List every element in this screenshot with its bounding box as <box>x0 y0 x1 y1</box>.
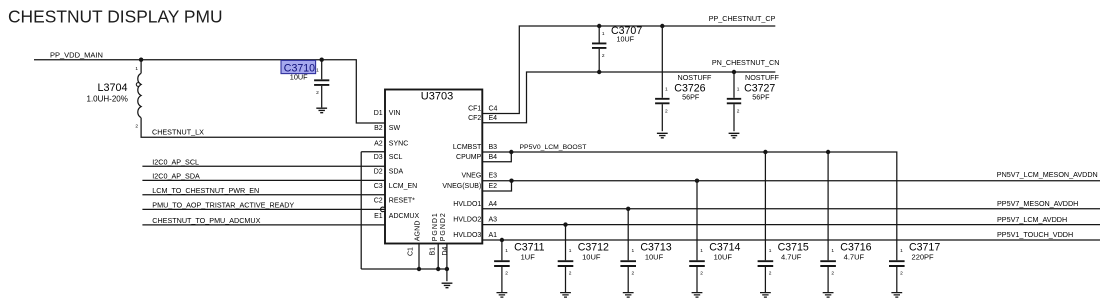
svg-text:1: 1 <box>135 66 138 72</box>
svg-text:1: 1 <box>769 248 772 254</box>
junction node B3/B4 <box>509 150 513 154</box>
svg-text:PP_CHESTNUT_CP: PP_CHESTNUT_CP <box>709 14 776 23</box>
svg-text:2: 2 <box>316 90 319 96</box>
svg-text:2: 2 <box>900 271 903 277</box>
capacitor C3710 <box>314 60 329 108</box>
wire PN5V7_LCM_MESON_AVDDN from pin E3 <box>482 180 1100 182</box>
wire PP5V7_MESON_AVDDH from pin A4 <box>482 208 1100 210</box>
wire PP5V7_LCM_AVDDH from pin A3 <box>482 224 1100 226</box>
svg-text:PGND2: PGND2 <box>440 212 447 241</box>
svg-text:2: 2 <box>569 271 572 277</box>
ground under C3712 <box>560 293 571 298</box>
svg-text:D2: D2 <box>374 168 383 175</box>
svg-text:PP5V7_LCM_AVDDH: PP5V7_LCM_AVDDH <box>997 215 1067 224</box>
svg-text:1: 1 <box>569 248 572 254</box>
junction node C3713 pin 1 <box>626 207 630 211</box>
svg-text:CF2: CF2 <box>468 115 481 122</box>
svg-text:2: 2 <box>505 271 508 277</box>
svg-text:2: 2 <box>632 271 635 277</box>
svg-text:PP5V7_MESON_AVDDH: PP5V7_MESON_AVDDH <box>997 199 1078 208</box>
wire PP5V1_TOUCH_VDDH from pin A1 <box>482 239 1100 241</box>
svg-text:LCM_TO_CHESTNUT_PWR_EN: LCM_TO_CHESTNUT_PWR_EN <box>152 186 259 195</box>
svg-text:1: 1 <box>505 248 508 254</box>
ground under C3711 <box>497 293 508 298</box>
svg-text:1: 1 <box>831 248 834 254</box>
svg-text:NOSTUFF: NOSTUFF <box>745 73 780 82</box>
svg-text:1: 1 <box>632 248 635 254</box>
capacitor C3727 (NOSTUFF) <box>727 72 741 131</box>
junction node at C3710 pin 1 <box>320 58 324 62</box>
junction node C3715 pin 1 <box>763 150 767 154</box>
junction node AGND/rail <box>417 267 421 271</box>
svg-text:1: 1 <box>316 67 319 73</box>
svg-text:2: 2 <box>602 53 605 59</box>
L3704 polarity dot marker <box>136 83 140 87</box>
capacitor C3726 (NOSTUFF) <box>655 26 669 131</box>
svg-text:1: 1 <box>602 31 605 37</box>
svg-text:C3712: C3712 <box>578 241 609 253</box>
svg-text:A2: A2 <box>374 141 383 148</box>
svg-text:10UF: 10UF <box>290 72 308 81</box>
svg-text:PP5V0_LCM_BOOST: PP5V0_LCM_BOOST <box>520 144 587 151</box>
svg-text:220PF: 220PF <box>912 253 935 262</box>
svg-text:A1: A1 <box>489 232 498 239</box>
svg-text:PN5V7_LCM_MESON_AVDDN: PN5V7_LCM_MESON_AVDDN <box>997 170 1098 179</box>
svg-text:CHESTNUT_LX: CHESTNUT_LX <box>152 128 204 137</box>
svg-text:U3703: U3703 <box>421 91 453 103</box>
wire I2C0_AP_SCL <box>142 165 385 167</box>
capacitor C3717 <box>889 261 905 292</box>
svg-text:CF1: CF1 <box>468 105 481 112</box>
junction node C3711 pin 1 <box>500 238 504 242</box>
capacitor C3713 <box>620 209 636 292</box>
svg-text:C3711: C3711 <box>514 241 545 253</box>
svg-text:1: 1 <box>737 87 740 93</box>
wire PMU_TO_AOP_TRISTAR_ACTIVE_READY <box>142 208 385 210</box>
svg-text:SYNC: SYNC <box>389 141 408 148</box>
svg-text:VNEG: VNEG <box>461 173 481 180</box>
ground under C3714 <box>692 293 703 298</box>
svg-text:10UF: 10UF <box>645 253 664 262</box>
junction node E3/E2 <box>509 179 513 183</box>
svg-text:HVLDO2: HVLDO2 <box>453 217 481 224</box>
svg-text:HVLDO1: HVLDO1 <box>453 201 481 208</box>
svg-text:LCM_EN: LCM_EN <box>389 183 417 190</box>
wire CHESTNUT_LX from L3704 pin 2 to SW pin B2 <box>141 118 385 138</box>
svg-text:RESET*: RESET* <box>389 197 415 204</box>
capacitor C3711 <box>494 240 510 292</box>
svg-text:A3: A3 <box>489 217 498 224</box>
capacitor C3714 <box>689 181 705 292</box>
svg-text:C4: C4 <box>489 105 498 112</box>
svg-text:PN_CHESTNUT_CN: PN_CHESTNUT_CN <box>712 58 780 67</box>
wire CHESTNUT_TO_PMU_ADCMUX <box>142 224 385 226</box>
svg-text:PP5V1_TOUCH_VDDH: PP5V1_TOUCH_VDDH <box>997 230 1073 239</box>
svg-text:CHESTNUT_TO_PMU_ADCMUX: CHESTNUT_TO_PMU_ADCMUX <box>152 216 260 225</box>
junction node C3707 pin 1 <box>597 24 601 28</box>
svg-text:56PF: 56PF <box>682 92 700 101</box>
ground under C3716 <box>823 293 834 298</box>
svg-text:C1: C1 <box>408 247 415 256</box>
svg-text:2: 2 <box>831 271 834 277</box>
svg-text:AGND: AGND <box>414 220 421 241</box>
svg-text:SW: SW <box>389 125 401 132</box>
ground under C3710 <box>316 108 327 113</box>
svg-text:C3: C3 <box>374 183 383 190</box>
junction node C3707 pin 2 <box>597 70 601 74</box>
op-amp / PMU IC U3703 body <box>385 90 482 244</box>
svg-text:1.0UH-20%: 1.0UH-20% <box>87 95 128 104</box>
junction node at L3704 pin 1 <box>139 58 143 62</box>
capacitor C3716 <box>820 152 836 292</box>
svg-text:2: 2 <box>135 123 138 129</box>
junction node C3712 pin 1 <box>563 222 567 226</box>
svg-text:SDA: SDA <box>389 168 404 175</box>
wire AGND pin C1 stub <box>418 244 420 270</box>
svg-text:PGND1: PGND1 <box>432 212 439 241</box>
ground under C3717 <box>891 293 902 298</box>
wire PP5V0_LCM_BOOST from pin B3 to C3717 <box>482 152 897 260</box>
svg-text:L3704: L3704 <box>98 82 128 94</box>
junction node PGND2/rail <box>445 267 449 271</box>
svg-text:C3717: C3717 <box>909 241 940 253</box>
pin designator box column (left pins D3,D2,C3,C2,E1) and AGND rail drop <box>361 152 385 269</box>
svg-text:B1: B1 <box>430 247 437 256</box>
svg-text:PMU_TO_AOP_TRISTAR_ACTIVE_READ: PMU_TO_AOP_TRISTAR_ACTIVE_READY <box>152 201 294 210</box>
svg-text:B4: B4 <box>489 154 498 161</box>
svg-text:2: 2 <box>737 109 740 115</box>
wire PGND1 pin B1 stub <box>437 244 439 270</box>
svg-text:ADCMUX: ADCMUX <box>389 213 420 220</box>
svg-text:C3713: C3713 <box>640 241 671 253</box>
svg-text:PP_VDD_MAIN: PP_VDD_MAIN <box>50 50 103 59</box>
svg-text:1UF: 1UF <box>521 253 536 262</box>
wire I2C0_AP_SDA <box>142 179 385 181</box>
svg-text:LCMBST: LCMBST <box>453 144 482 151</box>
ground under C3713 <box>623 293 634 298</box>
svg-text:C3714: C3714 <box>709 241 740 253</box>
svg-text:CHESTNUT DISPLAY PMU: CHESTNUT DISPLAY PMU <box>8 6 223 26</box>
svg-text:NOSTUFF: NOSTUFF <box>678 73 713 82</box>
svg-text:B2: B2 <box>374 125 383 132</box>
svg-text:CPUMP: CPUMP <box>456 154 482 161</box>
svg-text:B3: B3 <box>489 144 498 151</box>
svg-text:4.7UF: 4.7UF <box>781 253 802 262</box>
wire CF1 pin C4 to PP_CHESTNUT_CP <box>482 26 775 114</box>
junction node C3716 pin 1 <box>826 150 830 154</box>
svg-text:E4: E4 <box>489 115 498 122</box>
wire PP_VDD_MAIN to VIN pin D1 <box>34 60 385 123</box>
svg-text:A4: A4 <box>489 201 498 208</box>
svg-text:10UF: 10UF <box>617 34 635 43</box>
junction node PGND1/rail <box>436 267 440 271</box>
RESET* active-low bubble on pin C2 <box>381 207 386 212</box>
svg-text:SCL: SCL <box>389 154 403 161</box>
svg-text:E2: E2 <box>489 183 498 190</box>
svg-text:E3: E3 <box>489 173 498 180</box>
svg-text:E1: E1 <box>374 213 383 220</box>
wire pin E2 jog to PN5V7_LCM_MESON_AVDDN <box>482 181 511 191</box>
svg-text:4.7UF: 4.7UF <box>844 253 865 262</box>
svg-text:D4: D4 <box>442 246 449 255</box>
svg-text:I2C0_AP_SCL: I2C0_AP_SCL <box>152 157 199 166</box>
wire CF2 pin E4 to PN_CHESTNUT_CN <box>482 72 775 123</box>
ground rail under U3703 <box>361 268 447 270</box>
svg-text:I2C0_AP_SDA: I2C0_AP_SDA <box>152 172 200 181</box>
wire pin B4 jog to PP5V0_LCM_BOOST <box>482 152 511 162</box>
svg-text:1: 1 <box>900 248 903 254</box>
svg-text:2: 2 <box>665 109 668 115</box>
svg-text:D3: D3 <box>374 154 383 161</box>
svg-text:2: 2 <box>769 271 772 277</box>
ground under U3703 PGND2 <box>442 283 453 288</box>
svg-text:1: 1 <box>700 248 703 254</box>
svg-text:VIN: VIN <box>389 110 401 117</box>
svg-text:D1: D1 <box>374 110 383 117</box>
svg-text:1: 1 <box>665 87 668 93</box>
inductor L3704 <box>138 60 141 118</box>
svg-text:C3716: C3716 <box>840 241 871 253</box>
ground under C3727 <box>729 133 740 138</box>
wire PGND2 pin D4 stub to ground <box>446 244 448 282</box>
junction node C3727 pin 1 <box>732 70 736 74</box>
svg-text:C2: C2 <box>374 197 383 204</box>
svg-text:56PF: 56PF <box>752 92 770 101</box>
wire LCM_TO_CHESTNUT_PWR_EN <box>142 194 385 196</box>
capacitor C3710 highlight box <box>281 60 316 73</box>
svg-text:2: 2 <box>700 271 703 277</box>
svg-text:VNEG(SUB): VNEG(SUB) <box>442 183 481 190</box>
capacitor C3715 <box>758 152 774 292</box>
junction node C3726 pin 1 <box>660 24 664 28</box>
svg-text:10UF: 10UF <box>582 253 601 262</box>
capacitor C3712 <box>558 225 574 292</box>
ground under C3726 <box>657 133 668 138</box>
svg-text:C3715: C3715 <box>778 241 809 253</box>
ground under C3715 <box>760 293 771 298</box>
junction node C3714 pin 1 <box>695 179 699 183</box>
svg-text:10UF: 10UF <box>714 253 733 262</box>
svg-text:HVLDO3: HVLDO3 <box>453 232 481 239</box>
capacitor C3707 <box>592 26 606 72</box>
